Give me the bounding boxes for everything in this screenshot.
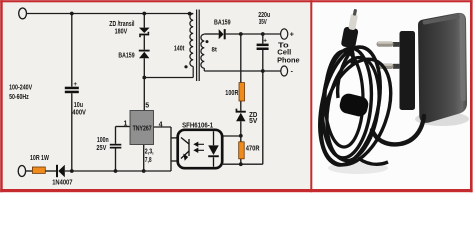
svg-text:180V: 180V [115,29,128,36]
svg-text:+: + [263,38,267,44]
svg-text:BA159: BA159 [214,19,231,26]
svg-text:1N4007: 1N4007 [52,180,72,187]
svg-text:Phone: Phone [277,55,300,64]
svg-text:400V: 400V [72,110,86,117]
svg-text:1: 1 [123,121,127,128]
svg-text:5: 5 [145,103,149,110]
svg-text:25V: 25V [96,145,106,152]
svg-text:10u: 10u [74,102,83,109]
svg-text:220u: 220u [258,12,270,19]
svg-text:140t: 140t [174,45,185,52]
svg-text:TNY267: TNY267 [133,125,152,132]
svg-text:100R: 100R [225,90,238,97]
svg-text:470R: 470R [246,146,260,153]
svg-text:8t: 8t [212,46,218,53]
svg-text:SFH6106-1: SFH6106-1 [182,122,213,129]
svg-text:4: 4 [159,122,163,129]
svg-text:5V: 5V [249,118,258,125]
svg-text:35V: 35V [259,19,267,26]
svg-text:2,3,: 2,3, [145,148,154,155]
svg-text:+: + [74,82,78,88]
svg-text:BA159: BA159 [118,53,134,60]
svg-text:50-60Hz: 50-60Hz [9,94,29,101]
svg-text:ZD /transil: ZD /transil [109,21,134,28]
svg-text:+: + [290,32,294,39]
svg-text:100n: 100n [97,137,109,144]
svg-text:10R 1W: 10R 1W [30,155,49,162]
svg-text:100-240V: 100-240V [9,85,32,92]
svg-text:7,8: 7,8 [145,157,152,164]
